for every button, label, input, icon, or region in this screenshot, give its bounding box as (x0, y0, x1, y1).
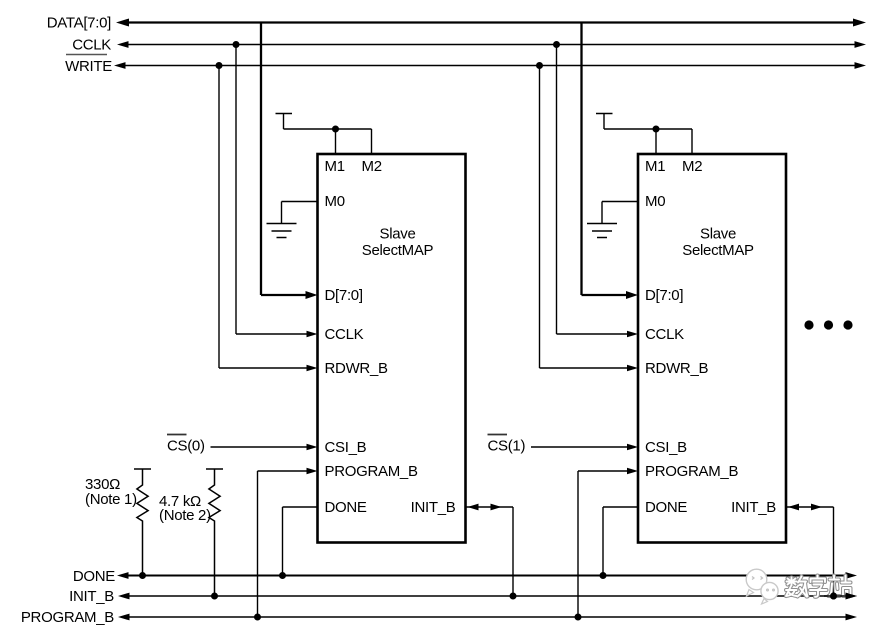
svg-text:(Note 2): (Note 2) (159, 507, 211, 524)
svg-text:WRITE: WRITE (65, 58, 112, 75)
power VCC tick for U2 mode pins (596, 114, 613, 130)
pin PROGRAM_B label U1 (325, 463, 418, 480)
resistor R1 330ohm note label (85, 491, 137, 508)
svg-text:INIT_B: INIT_B (731, 499, 776, 516)
svg-text:DONE: DONE (73, 568, 115, 585)
net CS(1) label (488, 438, 526, 455)
wire INIT_B rail segment redraw over watermark (824, 593, 857, 600)
wire DONE feed U2 (603, 507, 638, 576)
power VCC tick for U1 mode pins (276, 114, 293, 130)
pin CSI_B label U2 (645, 439, 687, 456)
wire INIT_B bidirectional U2 (786, 504, 834, 596)
svg-text:M0: M0 (645, 193, 665, 210)
svg-text:RDWR_B: RDWR_B (325, 360, 388, 377)
net CS(1) overline (488, 434, 508, 436)
wire PROGRAM_B rail (118, 614, 857, 621)
wire PROGRAM_B feed U1 (258, 468, 318, 617)
svg-text:SelectMAP: SelectMAP (682, 242, 754, 259)
svg-text:D[7:0]: D[7:0] (325, 287, 363, 304)
junction INIT_B rail U2 (830, 593, 837, 600)
wire DONE feed U1 (283, 507, 318, 576)
svg-text:M2: M2 (682, 158, 702, 175)
junction on WRITE rail U2 (536, 62, 543, 69)
svg-text:M2: M2 (362, 158, 382, 175)
watermark logo and text (746, 569, 850, 604)
resistor R2 4.7k pullup (206, 469, 223, 596)
pin M0 label U1 (325, 193, 345, 210)
op-amp U2 Slave SelectMAP block body (638, 154, 786, 543)
pin INIT_B label U1 (411, 499, 456, 516)
wire DATA bus drop to D[7:0] U1 (261, 23, 318, 300)
wire VCC to M1/M2 of U2 (604, 129, 692, 154)
net WRITE label (65, 58, 112, 75)
junction on WRITE rail U1 (216, 62, 223, 69)
svg-text:DONE: DONE (325, 499, 367, 516)
net CCLK label (72, 37, 111, 54)
pin CCLK label U2 (645, 326, 684, 343)
pin M0 label U2 (645, 193, 665, 210)
pin CCLK label U1 (325, 326, 364, 343)
pin DONE label U2 (645, 499, 687, 516)
junction on CCLK rail U1 (233, 41, 240, 48)
wire CCLK rail (117, 41, 866, 48)
svg-text:PROGRAM_B: PROGRAM_B (645, 463, 738, 480)
resistor R1 330ohm value label (85, 476, 120, 493)
net WRITE overline (66, 54, 107, 56)
wire CCLK drop U1 (236, 45, 318, 338)
junction on CCLK rail U2 (553, 41, 560, 48)
wire WRITE drop to RDWR_B U1 (219, 66, 318, 372)
wire CS(0) to CSI_B U1 (211, 444, 318, 451)
svg-text:CCLK: CCLK (645, 326, 684, 343)
wire WRITE drop to RDWR_B U2 (540, 66, 639, 372)
junction DONE rail U2 (600, 572, 607, 579)
svg-text:CSI_B: CSI_B (645, 439, 687, 456)
net DATA[7:0] label (47, 15, 111, 32)
junction INIT_B rail U1 (510, 593, 517, 600)
wire PROGRAM_B feed U2 (578, 468, 638, 617)
wire WRITE rail (114, 62, 866, 69)
wire CCLK drop U2 (557, 45, 639, 338)
svg-text:M1: M1 (325, 158, 345, 175)
pin RDWR_B label U2 (645, 360, 708, 377)
pin RDWR_B label U1 (325, 360, 388, 377)
ground symbol U1 (267, 224, 297, 238)
svg-text:INIT_B: INIT_B (69, 588, 114, 605)
svg-text:INIT_B: INIT_B (411, 499, 456, 516)
svg-text:DATA[7:0]: DATA[7:0] (47, 15, 111, 32)
svg-text:CCLK: CCLK (325, 326, 364, 343)
net INIT_B label (69, 588, 114, 605)
wire DONE rail (117, 572, 857, 579)
ellipsis continuation dots (804, 320, 852, 329)
svg-text:CSI_B: CSI_B (325, 439, 367, 456)
pin M2 label U1 (362, 158, 382, 175)
pin PROGRAM_B label U2 (645, 463, 738, 480)
ground symbol U2 (587, 224, 617, 238)
svg-text:D[7:0]: D[7:0] (645, 287, 683, 304)
junction on M1 wire U2 (653, 126, 660, 133)
wire INIT_B rail (118, 593, 857, 600)
U1 title Slave SelectMAP (362, 226, 434, 260)
pin INIT_B label U2 (731, 499, 776, 516)
svg-text:PROGRAM_B: PROGRAM_B (325, 463, 418, 480)
svg-text:RDWR_B: RDWR_B (645, 360, 708, 377)
svg-text:M0: M0 (325, 193, 345, 210)
svg-text:CS(0): CS(0) (167, 438, 205, 455)
op-amp U1 Slave SelectMAP block body (318, 154, 466, 543)
net CS(0) label (167, 438, 205, 455)
junction INIT_B rail U2 redraw over watermark (830, 593, 837, 600)
junction PROGRAM_B rail U1 (254, 614, 261, 621)
pin M2 label U2 (682, 158, 702, 175)
svg-text:Slave: Slave (379, 226, 415, 243)
junction R1 on DONE rail (139, 572, 146, 579)
net DONE label (73, 568, 115, 585)
wire M0 to ground U1 (282, 202, 318, 224)
pin D[7:0] label U1 (325, 287, 363, 304)
svg-text:(Note 1): (Note 1) (85, 491, 137, 508)
wire DATA[7:0] bus rail (116, 19, 866, 27)
resistor R2 4.7k value label (159, 493, 201, 510)
wire VCC to M1/M2 of U1 (284, 129, 372, 154)
pin M1 label U1 (325, 158, 345, 175)
svg-text:Slave: Slave (700, 226, 736, 243)
resistor R2 4.7k note label (159, 507, 211, 524)
pin M1 label U2 (645, 158, 665, 175)
junction R2 on INIT_B rail (211, 593, 218, 600)
svg-text:CCLK: CCLK (72, 37, 111, 54)
svg-text:M1: M1 (645, 158, 665, 175)
svg-text:CS(1): CS(1) (488, 438, 526, 455)
wire DATA bus drop to D[7:0] U2 (582, 23, 639, 300)
pin CSI_B label U1 (325, 439, 367, 456)
wire CS(1) to CSI_B U2 (531, 444, 638, 451)
wire INIT_B bidirectional U1 (466, 504, 514, 596)
resistor R1 330ohm pullup (134, 469, 151, 576)
svg-text:SelectMAP: SelectMAP (362, 242, 434, 259)
net PROGRAM_B label (21, 609, 114, 626)
U2 title Slave SelectMAP (682, 226, 754, 260)
wire M0 to ground U2 (602, 202, 638, 224)
svg-text:DONE: DONE (645, 499, 687, 516)
junction PROGRAM_B rail U2 (575, 614, 582, 621)
pin D[7:0] label U2 (645, 287, 683, 304)
pin DONE label U1 (325, 499, 367, 516)
junction on M1 wire U1 (332, 126, 339, 133)
junction DONE rail U1 (279, 572, 286, 579)
svg-text:PROGRAM_B: PROGRAM_B (21, 609, 114, 626)
net CS(0) overline (167, 434, 187, 436)
